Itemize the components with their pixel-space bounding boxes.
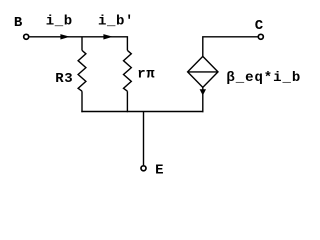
svg-text:β_eq*i_b: β_eq*i_b	[226, 70, 301, 86]
svg-text:C: C	[255, 18, 264, 34]
current arrow i_b	[60, 34, 70, 39]
terminal E	[141, 166, 146, 171]
source current direction arrow	[200, 89, 206, 95]
current arrow i_b'	[103, 34, 113, 39]
wire rail to E	[143, 112, 145, 166]
wire C to source	[203, 37, 258, 57]
svg-text:B: B	[14, 15, 23, 31]
svg-text:rπ: rπ	[137, 67, 155, 83]
resistor rpi	[124, 50, 132, 112]
wire B to node1	[30, 36, 83, 38]
svg-text:E: E	[155, 163, 164, 179]
dependent current source U1 (diamond)	[188, 56, 218, 87]
terminal C	[258, 34, 263, 39]
bottom rail wire	[81, 111, 203, 113]
wire node1 to rpi corner	[82, 37, 127, 51]
terminal B	[24, 34, 29, 39]
svg-text:R3: R3	[55, 71, 73, 87]
svg-text:i_b': i_b'	[98, 13, 134, 29]
svg-text:i_b: i_b	[46, 13, 73, 29]
resistor R3	[78, 37, 86, 112]
wire source to rail	[202, 87, 204, 112]
